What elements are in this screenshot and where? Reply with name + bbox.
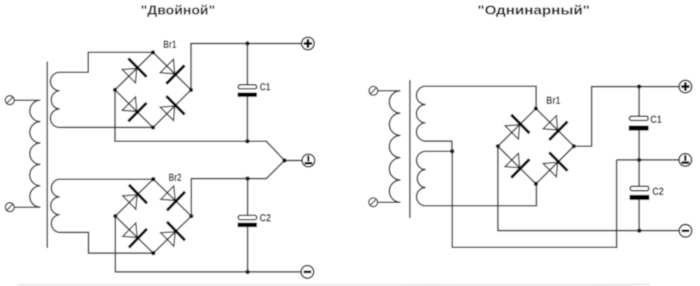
svg-text:Br1: Br1 bbox=[163, 39, 176, 51]
junction dot C2 bottom (right) bbox=[637, 228, 641, 232]
Br1 (left circuit) diode top-right (anode top node, cathode right node) bbox=[160, 59, 184, 84]
transformer T1 core bbox=[46, 62, 48, 249]
junction dot C1 bottom (right) bbox=[637, 158, 641, 162]
transformer T1 secondary winding a bbox=[50, 72, 59, 127]
wire: ground line to ground terminal bbox=[617, 159, 679, 161]
wire: secondary lower bottom lead right then up to Br1 bottom node bbox=[426, 184, 537, 206]
transformer T2 primary winding bbox=[389, 91, 400, 203]
wire: Br2 left node down and right to minus terminal bbox=[115, 216, 301, 272]
svg-text:C2: C2 bbox=[652, 186, 664, 198]
bridge Br2 (left circuit) diamond wires bbox=[115, 179, 191, 253]
junction dot C1 bottom bbox=[245, 139, 249, 143]
Br2 (left circuit) diode top-right (anode top node, cathode right node) bbox=[161, 186, 185, 211]
wire: secondary-a top lead to Br1 top node bbox=[60, 52, 153, 72]
center tap junction dot bbox=[450, 149, 454, 153]
capacitor C2 (left) plates bbox=[238, 215, 257, 227]
Br1 (left circuit) node dots (top, right, bottom, left) bbox=[113, 50, 193, 129]
plus output terminal (left circuit) bbox=[302, 37, 315, 50]
Br1 (right circuit) diode left-bottom (anode left node, cathode bottom node) bbox=[505, 153, 529, 177]
wire terminal bottom to primary bbox=[14, 206, 40, 208]
wire: Br1 right node right and up to plus rail bbox=[574, 87, 679, 147]
capacitor C1 (left) leads bbox=[246, 44, 248, 142]
capacitor C1 (right) plates bbox=[629, 116, 649, 130]
svg-text:Br1: Br1 bbox=[546, 95, 560, 107]
wire: secondary-b bottom lead to Br2 bottom node bbox=[60, 232, 154, 253]
transformer T2 secondary winding upper bbox=[416, 86, 425, 141]
capacitor C2 (right) plates bbox=[630, 186, 650, 200]
wire: secondary-b top lead to Br2 top node bbox=[60, 178, 154, 180]
wire terminal to primary bbox=[378, 90, 401, 92]
capacitor C1 (left) plates bbox=[238, 85, 257, 97]
Br1 (left circuit) diode bottom-right (anode bottom node, cathode right node) bbox=[160, 96, 184, 121]
plus output terminal (right circuit) bbox=[679, 80, 692, 93]
svg-text:Br2: Br2 bbox=[169, 172, 182, 184]
Br1 (left circuit) diode left-top (anode left node, cathode top node) bbox=[122, 58, 146, 83]
wire: Br1 left node down and right to mid junction, to ground terminal bbox=[115, 90, 302, 161]
junction dot C1 top bbox=[245, 41, 249, 45]
svg-text:C2: C2 bbox=[260, 212, 272, 224]
wire: secondary-a bottom lead to Br1 bottom node bbox=[60, 126, 153, 128]
Br1 (right circuit) diode left-top (anode left node, cathode top node) bbox=[505, 115, 529, 139]
wire: Br2 right node up and right to mid junction bbox=[191, 161, 284, 217]
junction dot C2 top bbox=[245, 176, 249, 180]
junction dot C2 bottom on minus rail bbox=[245, 270, 249, 274]
capacitor C1 (right) leads bbox=[638, 87, 640, 160]
Br1 (right circuit) node dots (top, right, bottom, left) bbox=[496, 106, 576, 186]
input terminal XS1 (top, slashed circle) bbox=[5, 96, 14, 105]
input terminal XS4 (bottom, slashed circle) bbox=[369, 198, 378, 207]
capacitor C2 (left) leads bbox=[247, 179, 249, 272]
wire terminal to primary bbox=[378, 201, 401, 203]
wire: secondary lower top lead to center tap bbox=[426, 150, 453, 152]
Br1 (right circuit) diode top-right (anode top node, cathode right node) bbox=[543, 116, 567, 140]
wire terminal top to primary bbox=[14, 99, 40, 101]
bridge Br1 (left circuit) diamond wires bbox=[115, 52, 191, 127]
wire: center tap down, right, up to ground line bbox=[452, 151, 616, 247]
Br2 (left circuit) diode left-top (anode left node, cathode top node) bbox=[123, 185, 147, 210]
wire: Br1 right node up and right to plus terminal bbox=[191, 44, 302, 90]
minus output terminal (right circuit) bbox=[679, 225, 692, 238]
wire: secondary upper top lead right then down to Br1 top node bbox=[426, 86, 536, 108]
svg-text:"Однинарный": "Однинарный" bbox=[477, 3, 590, 18]
bridge Br1 (right circuit) diamond wires bbox=[498, 109, 574, 184]
Br2 (left circuit) diode bottom-right (anode bottom node, cathode right node) bbox=[161, 222, 185, 247]
junction dot C1 top (right) bbox=[637, 84, 641, 88]
input terminal XS3 (top, slashed circle) bbox=[369, 86, 378, 95]
transformer T2 core bbox=[409, 80, 411, 218]
Br2 (left circuit) diode left-bottom (anode left node, cathode bottom node) bbox=[123, 223, 147, 248]
svg-text:"Двойной": "Двойной" bbox=[141, 3, 216, 18]
wire: secondary upper bottom lead to center tap bbox=[426, 141, 452, 151]
ground output terminal (left circuit) bbox=[302, 154, 315, 167]
faint scan artifact line at bottom bbox=[18, 283, 650, 286]
Br1 (right circuit) diode bottom-right (anode bottom node, cathode right node) bbox=[543, 152, 567, 176]
Br2 (left circuit) node dots (top, right, bottom, left) bbox=[113, 177, 193, 255]
input terminal XS2 (bottom, slashed circle) bbox=[5, 203, 14, 212]
minus output terminal (left circuit) bbox=[301, 266, 314, 279]
svg-text:C1: C1 bbox=[650, 114, 662, 126]
wire: Br1 left node down to minus rail and right to minus terminal bbox=[498, 146, 679, 230]
capacitor C2 (right) leads bbox=[638, 160, 640, 231]
Br1 (left circuit) diode left-bottom (anode left node, cathode bottom node) bbox=[122, 97, 146, 122]
junction dot mid ground bbox=[282, 158, 286, 162]
transformer T1 secondary winding b bbox=[51, 179, 60, 232]
transformer T2 secondary winding lower bbox=[417, 151, 426, 206]
svg-text:C1: C1 bbox=[260, 81, 271, 93]
ground output terminal (right circuit) bbox=[679, 154, 692, 167]
transformer T1 primary winding bbox=[30, 100, 41, 207]
